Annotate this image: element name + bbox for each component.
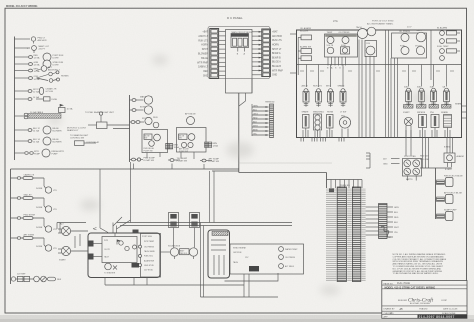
lamp: mast light (144, 96, 152, 104)
receptacle: spot light (28, 87, 57, 94)
panel mid riser wires (359, 40, 374, 138)
switch: instrument lights (328, 89, 334, 107)
battery paralleling solenoid (160, 246, 198, 260)
text: searchlight notes (67, 128, 89, 140)
panel left feed blocks (290, 27, 312, 75)
wiper motor control (314, 114, 322, 138)
title row: drawn by (384, 307, 459, 311)
right feeder trunk (420, 168, 452, 219)
alternator: port (spoked) (58, 223, 71, 236)
gauge: port running light (29, 53, 64, 61)
relay block: stbd solenoid feed (190, 213, 200, 248)
port engine bottom wires (105, 278, 244, 286)
lamp: fwd bilge pilot (145, 117, 159, 128)
breaker: panel (431, 115, 439, 138)
panel to border ticks (455, 103, 467, 119)
relay: searchlight (75, 141, 100, 146)
wire: bus row blower (15, 129, 28, 131)
wire label dashes row (300, 70, 454, 72)
lamp: stern light (27, 45, 50, 53)
panel divider (430, 30, 432, 80)
horn circuit (29, 71, 70, 82)
wire: bus row 2 (15, 47, 31, 49)
wire: bus to fwd light (15, 38, 31, 40)
terminal board strip A (326, 187, 346, 282)
wire: bus row 4 (15, 63, 29, 65)
motor: fresh water pump (25, 149, 65, 157)
pump: aft bilge (436, 192, 463, 204)
wire: bus row blower 2 (15, 140, 28, 142)
dc panel trunk down (239, 79, 252, 173)
gauge cluster drop wires (328, 57, 346, 66)
switch: anchor light (303, 89, 309, 107)
lamp: cabin lights 2 (36, 206, 57, 212)
breaker: horn (327, 115, 334, 138)
main feeder bus horizontal (11, 168, 240, 170)
stbd engine inner marks (211, 240, 226, 275)
panel partition (297, 64, 462, 66)
refrigerator circuit bottom left (11, 274, 62, 282)
wire: lower row 3 (11, 215, 46, 228)
engine feeder bus pair (57, 223, 292, 226)
clock (365, 41, 377, 57)
starter: port (spoked) (58, 246, 71, 261)
gauge: oil pressure (339, 32, 351, 43)
gauge: stbd volts (415, 45, 425, 54)
right feed into term board (366, 153, 370, 168)
term board top connector (329, 189, 334, 193)
junction: port engine tap (113, 217, 131, 233)
stbd engine junction box (208, 230, 230, 278)
port engine junction box (88, 233, 160, 278)
stbd engine terminal box (230, 244, 304, 274)
switch bank left labels (302, 85, 346, 88)
wire: searchlight to panel riser (107, 125, 130, 129)
wire: mast light row (130, 96, 154, 102)
stbd gauge cluster box (392, 33, 427, 58)
stbd ground stud (dark) (249, 266, 259, 271)
gauge: stbd oil press (399, 31, 411, 42)
wire: bus row 6 horn (15, 77, 29, 79)
connector: mid bilge deutsch pair (205, 142, 219, 148)
drawing number bar (384, 315, 468, 319)
aux block labels (387, 207, 393, 237)
lamp: cabin lights 4 (36, 245, 57, 251)
wire: bus row 8 (15, 98, 28, 100)
wire: lower row 1 (11, 174, 46, 189)
notes paragraph (393, 253, 447, 275)
motor: bilge blower 1 (28, 126, 62, 134)
gauge: stbd tach (416, 29, 426, 42)
connector pair windlass (24, 113, 28, 119)
dc panel outer outline (208, 27, 270, 79)
pump: port light bilge (436, 176, 464, 187)
port engine text rows (142, 236, 155, 272)
float switch: aft sump (200, 158, 220, 164)
harness trunk to term board (239, 173, 327, 189)
title row: checked (384, 311, 457, 315)
stbd engine drop pair (201, 223, 279, 298)
wires: left strip to panel (219, 32, 226, 76)
chris craft script logo (398, 297, 448, 305)
wire: lower row 4 (11, 234, 46, 247)
fan: dc panel aux harness (252, 102, 275, 138)
stbd engine labels (233, 248, 298, 269)
term board distribution (327, 180, 363, 189)
panel right edge components (437, 27, 460, 61)
gauge cluster box (325, 34, 358, 57)
mid riser bundle B (386, 30, 398, 138)
mid bilge pump assembly box (177, 128, 207, 153)
wires: port engine stubs (71, 231, 88, 251)
ignition switch rotary (404, 117, 412, 137)
gauge: water temp (327, 32, 335, 43)
dc panel right terminal strip (262, 29, 271, 77)
switch: running lights (316, 89, 322, 107)
title block outline (382, 281, 467, 319)
ticks: right drop labels (444, 138, 453, 154)
wires: battery feed ticks (383, 159, 400, 166)
connector: fwd bilge deutsch pair (166, 144, 180, 150)
breaker: spare right (444, 115, 452, 138)
switch: spare (340, 89, 346, 107)
stbd engine lower outline (225, 273, 279, 281)
gauge: stbd fuel (400, 45, 409, 54)
feeder drops from accessory bus (57, 162, 131, 233)
title block rows (382, 285, 467, 314)
junction box: searchlight control (59, 104, 74, 113)
wire: bus row 5 (15, 70, 29, 72)
gauge: stbd running light (29, 60, 64, 68)
stbd engine connector bar (212, 232, 228, 236)
wire: bus row galley (15, 152, 25, 154)
wire: lower row 2 (11, 194, 46, 208)
A/C instrument panel outline (297, 30, 462, 138)
wire: fwd bilge feed (130, 118, 153, 123)
riser: mast/bow light feed (129, 95, 131, 162)
stbd engine indicator circles (279, 247, 284, 269)
wires: panel right drops (406, 138, 429, 169)
fwd bilge pump assembly box (142, 130, 168, 153)
battery bank 2x2 (403, 156, 422, 181)
labels: dc panel right (272, 31, 283, 77)
panel header labels (333, 20, 412, 29)
cable: hatched multiconductor to searchlight (28, 111, 61, 118)
wire: bus row 7 (15, 90, 28, 92)
breaker: wipers (419, 115, 427, 138)
gauge: tachometers (356, 26, 376, 39)
lamp: anchor light (31, 37, 47, 44)
wire: trunk elbow to engine feeders (210, 171, 239, 223)
motor: bilge blower 2 (28, 137, 62, 145)
lamp: bow light (144, 106, 152, 114)
alarm buzzer (444, 153, 464, 171)
partition to switch feeds (307, 65, 447, 88)
connector band under stbd switches (404, 105, 452, 109)
bottom scan shadow (0, 315, 474, 322)
labels: dc panel left (197, 31, 208, 78)
wire: bilge box drops (147, 152, 194, 159)
pump: sump (436, 210, 458, 221)
panel light switch rotary (339, 116, 350, 138)
lamp: mid bilge pilot (185, 113, 196, 125)
terminal board strip B (347, 187, 365, 282)
term board right fan (366, 207, 379, 235)
searchlight assembly (85, 111, 115, 129)
scan blotches (48, 55, 429, 295)
wire: bow light row (130, 107, 153, 112)
left accessory bus (lower) (10, 169, 12, 284)
wire: bus to windlass cable (15, 115, 25, 117)
switch: stbd bank 3 (431, 88, 437, 106)
title row: page (384, 282, 411, 285)
switch: stbd bank 2 (419, 88, 425, 106)
port engine internals (88, 230, 142, 275)
aux terminal block (379, 204, 388, 239)
right row2 labels (403, 111, 449, 114)
dc panel left terminal strip (210, 29, 219, 79)
breaker: spare (303, 115, 310, 138)
left accessory bus (upper) (14, 37, 16, 161)
faint scan crease (238, 162, 332, 164)
wire: bus row 3 (15, 56, 29, 58)
revision scribble (381, 226, 391, 237)
switch bank right labels (404, 86, 446, 89)
switch: stbd bank 1 (406, 88, 412, 106)
lamp: cabin lights 1 (36, 187, 57, 193)
row2 bottom inner stubs (303, 130, 450, 138)
dc panel body (226, 30, 253, 94)
float switch: fwd sump (130, 158, 156, 163)
main circuit breakers (231, 31, 253, 56)
lamp: stern pole light (29, 66, 61, 74)
labels: right column rows (420, 156, 430, 162)
lamp: cabin lights 3 (36, 226, 57, 232)
wires: panel drops to term board (301, 138, 344, 142)
relay block: port solenoid feed (169, 213, 179, 248)
gauge: voltmeter (327, 45, 334, 54)
float row drops to feeder bus (134, 164, 205, 170)
switch bank row2 labels (302, 111, 347, 114)
float switch: mid sump (168, 158, 188, 163)
switch: stbd bank 4 (444, 88, 450, 106)
gauge: fuel (341, 45, 350, 54)
wires: panel to right strip with arrows (252, 32, 262, 75)
port engine inner panel (141, 234, 161, 278)
fuse block: spot light feed (28, 96, 58, 101)
